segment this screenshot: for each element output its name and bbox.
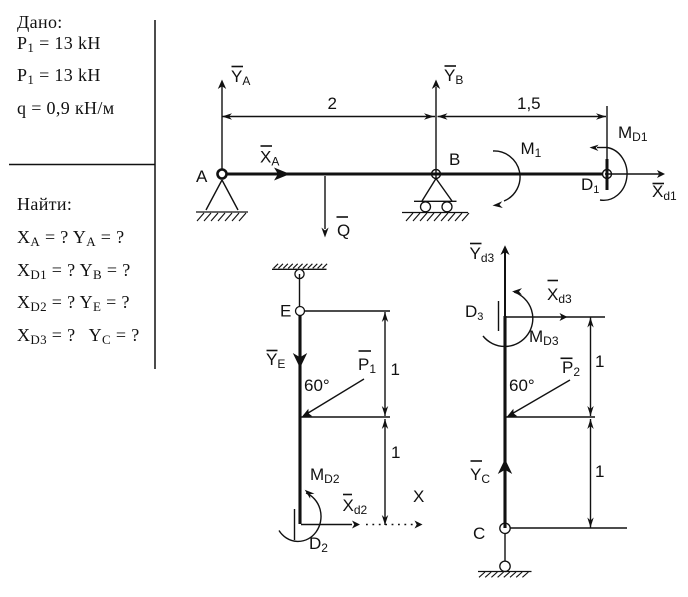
svg-text:E: E xyxy=(280,302,291,321)
svg-text:1: 1 xyxy=(595,352,604,371)
label X_A xyxy=(260,146,279,169)
ground hatch below C xyxy=(478,572,532,578)
svg-text:B: B xyxy=(449,150,460,169)
extension line mid right diagram xyxy=(505,416,595,418)
svg-text:1: 1 xyxy=(391,360,400,379)
node D1 circle xyxy=(603,170,612,179)
label P1 xyxy=(358,351,376,376)
moment M1 arc xyxy=(493,151,521,208)
moment MD3 arc xyxy=(483,288,533,346)
label Найти xyxy=(17,194,72,214)
label D1 xyxy=(581,175,599,196)
label Q xyxy=(337,217,351,240)
svg-text:Q: Q xyxy=(337,221,350,240)
force X_d3 arrow with extension xyxy=(505,313,605,321)
moment MD2 arc xyxy=(279,490,321,542)
find row XD1 YB xyxy=(17,260,131,282)
force Y_C arrowhead xyxy=(498,459,512,474)
label A xyxy=(196,167,208,186)
force X_d1 arrow xyxy=(605,170,665,178)
force X_d2 arrow xyxy=(301,521,360,529)
label 60 degrees right xyxy=(509,376,535,395)
label MD3 xyxy=(529,327,559,348)
force Y_d3 arrow xyxy=(500,245,509,316)
panel vertical separator line xyxy=(154,20,156,369)
dimension line 1,5 xyxy=(438,113,607,119)
roller support B xyxy=(414,179,457,212)
label Y_A xyxy=(231,67,250,89)
force Y_A arrow xyxy=(218,80,226,171)
find row XD2 YE xyxy=(17,292,130,314)
given value q xyxy=(17,98,115,118)
label Y_C xyxy=(470,461,490,486)
label E xyxy=(280,302,291,321)
ground joint circle xyxy=(500,561,510,571)
svg-text:1: 1 xyxy=(391,443,400,462)
svg-text:60°: 60° xyxy=(304,376,330,395)
label 1 upper right diagram xyxy=(595,352,604,371)
x axis dotted line xyxy=(366,521,423,529)
label X_d3 xyxy=(547,281,572,307)
force Y_E arrowhead xyxy=(293,353,307,368)
label Y_d3 xyxy=(470,244,495,266)
link line ceiling to E xyxy=(299,274,301,307)
find row XD3 YC xyxy=(17,325,140,347)
beam AD1 xyxy=(226,172,603,175)
bar D3 to C xyxy=(503,316,506,528)
dimension 1 upper left diagram xyxy=(382,312,388,416)
svg-text:1,5: 1,5 xyxy=(517,94,541,113)
svg-text:q = 0,9 кН/м: q = 0,9 кН/м xyxy=(17,98,115,118)
ceiling hatch above E xyxy=(272,264,327,270)
extension line at E level xyxy=(305,310,390,312)
cut marker D3 xyxy=(498,301,500,331)
bar E to D2 xyxy=(298,316,301,525)
force X_A arrow xyxy=(227,168,290,181)
svg-text:60°: 60° xyxy=(509,376,535,395)
label MD2 xyxy=(310,465,340,486)
given value P1 line 1 xyxy=(17,33,101,55)
label X_d1 xyxy=(652,182,677,203)
dimension line 2 xyxy=(222,113,435,119)
ground under B xyxy=(402,213,469,222)
link line C to ground joint xyxy=(504,534,506,562)
label D2 xyxy=(309,534,328,555)
node B circle xyxy=(432,170,441,179)
label X_d2 xyxy=(343,495,368,518)
label Y_B xyxy=(444,66,463,87)
find row XA YA xyxy=(17,227,124,249)
force P2 arrow xyxy=(507,380,571,417)
cut marker D2 xyxy=(294,509,296,540)
moment MD1 arc xyxy=(590,145,628,201)
dimension 1 upper right diagram xyxy=(587,318,593,417)
label B xyxy=(449,150,460,169)
force P1 arrow xyxy=(302,379,365,417)
ground under A xyxy=(196,212,248,221)
label 1,5 xyxy=(517,94,541,113)
svg-text:2: 2 xyxy=(328,94,337,113)
label 2 xyxy=(328,94,337,113)
node C circle xyxy=(500,523,510,533)
pin A circle xyxy=(218,170,227,179)
label D3 xyxy=(465,302,483,323)
force Q arrow xyxy=(321,176,328,238)
ceiling joint circle xyxy=(295,269,304,278)
label 1 upper left diagram xyxy=(391,360,400,379)
label C xyxy=(473,524,485,543)
label Дано xyxy=(17,12,63,32)
svg-text:Найти:: Найти: xyxy=(17,194,72,214)
label 1 lower right diagram xyxy=(595,462,604,481)
label Y_E xyxy=(266,350,285,371)
extension line mid left diagram xyxy=(301,416,390,418)
label MD1 xyxy=(618,123,648,144)
D1 extension line xyxy=(606,106,608,159)
label 60 degrees left xyxy=(304,376,330,395)
panel horizontal separator line xyxy=(9,164,155,166)
given value P1 line 2 xyxy=(17,65,101,87)
svg-text:A: A xyxy=(196,167,208,186)
extension line at C level xyxy=(510,527,627,529)
label M1 xyxy=(521,139,542,160)
pin support A triangle xyxy=(206,180,238,210)
svg-text:X: X xyxy=(413,487,424,506)
D1 cut marker xyxy=(606,159,609,190)
node E circle xyxy=(296,307,305,316)
dimension 1 lower left diagram xyxy=(382,419,388,525)
label X axis xyxy=(413,487,424,506)
svg-text:1: 1 xyxy=(595,462,604,481)
force Y_B arrow xyxy=(432,80,440,181)
dimension 1 lower right diagram xyxy=(587,419,593,528)
label 1 lower left diagram xyxy=(391,443,400,462)
svg-text:C: C xyxy=(473,524,485,543)
label P2 xyxy=(561,358,581,379)
svg-text:Дано:: Дано: xyxy=(17,12,63,32)
